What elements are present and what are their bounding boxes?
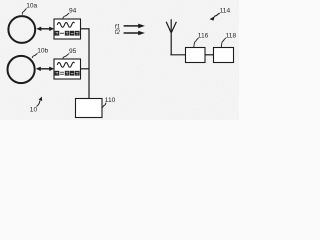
svg-text:94: 94 bbox=[69, 8, 77, 15]
svg-text:110: 110 bbox=[105, 97, 116, 104]
leader for 118 bbox=[221, 38, 226, 47]
leader for 10b bbox=[32, 53, 37, 58]
node 10a (circle) bbox=[8, 16, 35, 43]
leader for 10a bbox=[22, 9, 26, 15]
arrow for 114 bbox=[214, 13, 220, 16]
text blobs 第二振荡器 in box 95 bbox=[55, 71, 80, 76]
svg-text:118: 118 bbox=[226, 32, 237, 39]
wire antenna to box116 bbox=[171, 53, 186, 56]
oscillator box 94 bbox=[54, 19, 81, 39]
arrow f1 bbox=[124, 25, 139, 27]
leader for 94 bbox=[63, 13, 69, 19]
svg-text:114: 114 bbox=[220, 7, 231, 14]
leader for 116 bbox=[194, 38, 199, 47]
svg-text:95: 95 bbox=[69, 48, 77, 55]
node 10b (circle) bbox=[8, 56, 35, 83]
svg-text:10: 10 bbox=[30, 107, 38, 114]
wire box95 right to trunk bbox=[81, 68, 90, 70]
svg-text:f2: f2 bbox=[115, 29, 121, 36]
svg-text:116: 116 bbox=[198, 33, 209, 40]
arrow f2 bbox=[124, 32, 139, 34]
svg-text:10b: 10b bbox=[37, 48, 48, 55]
sine wave in box 94 bbox=[57, 22, 74, 27]
box 116 bbox=[186, 48, 206, 63]
svg-text:10a: 10a bbox=[26, 3, 37, 10]
wire: double arrow circle10b to box95 bbox=[39, 68, 51, 70]
wire box116 to box118 bbox=[205, 54, 214, 56]
text blobs 第一振荡器 in box 94 bbox=[55, 31, 80, 36]
wire: double arrow circle10a to box94 bbox=[40, 28, 52, 30]
antenna 114 bbox=[166, 19, 176, 55]
arrow for 10 bbox=[37, 101, 41, 107]
leader for 110 bbox=[103, 103, 107, 108]
leader for 95 bbox=[63, 54, 69, 59]
sine wave in box 95 bbox=[57, 62, 74, 67]
box 110 bbox=[76, 99, 103, 118]
trunk wire down to box110 bbox=[88, 28, 90, 98]
box 118 bbox=[214, 48, 234, 63]
wire box94 right to trunk bbox=[81, 28, 90, 30]
oscillator box 95 bbox=[54, 59, 81, 79]
